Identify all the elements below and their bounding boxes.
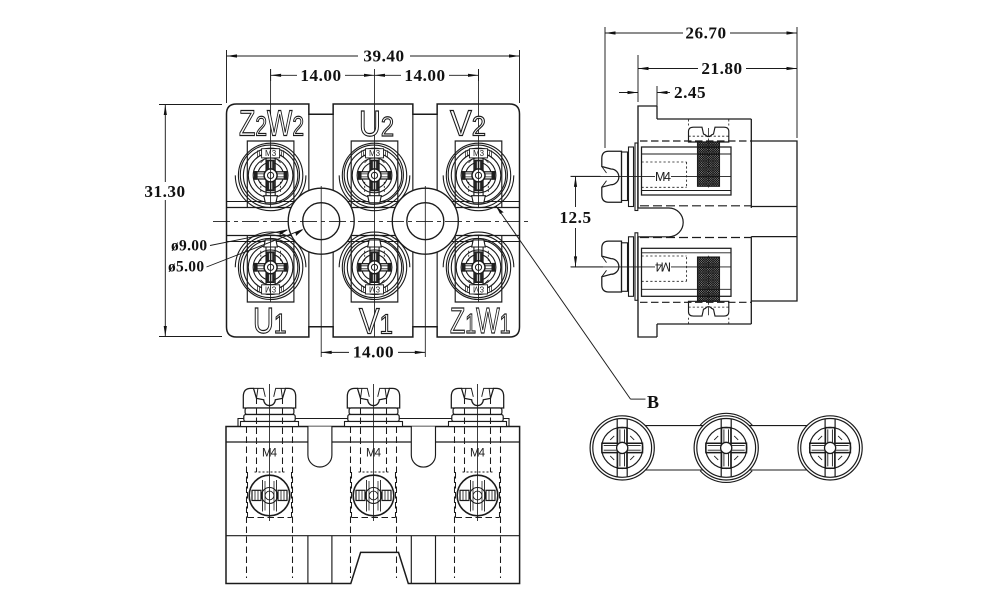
mounting hole right (outer 9mm) [392, 188, 458, 254]
dim 39.40 line [227, 55, 359, 57]
svg-text:14.00: 14.00 [353, 343, 394, 362]
front view body outline [227, 104, 520, 337]
channel horizontal edge lines [227, 202, 520, 242]
bottom view column 3 [449, 384, 507, 578]
svg-text:2.45: 2.45 [674, 83, 706, 102]
leader to detail B [496, 206, 645, 399]
screw axis centerline [571, 175, 655, 177]
bottom view body outline [226, 427, 520, 584]
screw Z2W2 [238, 143, 302, 207]
bottom view column 2 [345, 384, 403, 578]
flange plate outline [638, 106, 657, 337]
svg-text:ø5.00: ø5.00 [168, 259, 204, 276]
side view bottom screw assembly (mirror) [571, 233, 751, 324]
svg-text:39.40: 39.40 [363, 47, 404, 66]
leader diameter 9.00 [207, 230, 303, 267]
spring washer [622, 152, 628, 201]
right block [751, 141, 797, 301]
screw U1 [238, 235, 302, 299]
dim 2.45 [656, 86, 658, 114]
terminal frame V2 [455, 141, 502, 208]
horizontal dash-dot centerline [213, 221, 531, 223]
screw V2 boss arc [443, 175, 514, 210]
mounting hole right inner (5mm) [407, 203, 444, 240]
terminal frame V1 [351, 236, 398, 303]
screw U1 boss arc [235, 232, 306, 267]
dim 12.5 [571, 175, 601, 177]
dim 14.00 bottom line [321, 351, 349, 353]
detail B middle screw outer arcs [700, 413, 752, 482]
terminal frame U1 [247, 236, 294, 303]
terminal frame Z1W1 [455, 236, 502, 303]
main body outline [657, 118, 751, 120]
feet verticals [307, 536, 309, 584]
screw V1 boss arc [339, 232, 410, 267]
screw Z2W2 boss arc [235, 175, 306, 210]
channel vertical edges [309, 114, 437, 327]
slot between columns right [411, 427, 435, 468]
stud axis [708, 128, 710, 190]
column centerline Z2W2/U1 [270, 69, 272, 208]
flat washer [629, 147, 634, 207]
step line [226, 441, 520, 443]
terminal frame U2 [351, 141, 398, 208]
screw V2 [446, 143, 510, 207]
svg-text:21.80: 21.80 [701, 59, 742, 78]
dim 14.00 top lines [271, 74, 297, 76]
svg-text:M4: M4 [655, 170, 671, 184]
terminal bore [642, 147, 732, 195]
screw U2 [342, 143, 406, 207]
arrowheads front view [227, 54, 238, 57]
hidden verticals above clamp screw [689, 120, 729, 128]
side view screw assembly (top), mirrored for bottom [571, 120, 751, 211]
detail B middle screw [694, 416, 758, 480]
dim 31.30 extensions [159, 104, 222, 106]
mounting hole left inner (5mm) [303, 203, 340, 240]
mounting hole left (outer 9mm) [288, 188, 354, 254]
dim 14.00 top extensions [270, 69, 272, 81]
screw V1 [342, 235, 406, 299]
screw head profile [602, 151, 622, 202]
threaded stud (hatched) [698, 142, 720, 186]
svg-text:M4: M4 [655, 260, 671, 274]
top plate [238, 419, 509, 427]
M4 label bottom (rotated) [655, 260, 671, 274]
svg-text:31.30: 31.30 [144, 182, 185, 201]
bottom view column 1 [241, 384, 299, 578]
detail B left screw [590, 416, 654, 480]
svg-text:14.00: 14.00 [404, 66, 445, 85]
detail B right screw [798, 416, 862, 480]
dim 39.40 extension lines [226, 50, 228, 103]
dim 21.80 [637, 55, 639, 102]
slot between columns left [308, 427, 332, 468]
svg-text:14.00: 14.00 [300, 66, 341, 85]
vertical centerline through right hole [424, 186, 426, 357]
column centerline U2/V1 [374, 69, 376, 337]
hidden dashed line upper [640, 140, 751, 142]
dotted thread box [642, 162, 687, 187]
hidden dashed line near slot [640, 205, 751, 207]
svg-text:B: B [647, 392, 659, 412]
vertical centerline through left hole [320, 186, 322, 357]
terminal frame Z2W2 [247, 141, 294, 208]
link bar lines [645, 425, 808, 427]
svg-text:26.70: 26.70 [685, 24, 726, 43]
large washer [635, 143, 638, 211]
column centerline V2/Z1W1 [478, 69, 480, 208]
svg-text:ø9.00: ø9.00 [171, 238, 207, 255]
screw U2 boss arc [339, 175, 410, 210]
screw Z1W1 [446, 235, 510, 299]
U-slot between terminals [638, 208, 683, 237]
clamp screw head [689, 127, 729, 142]
svg-text:12.5: 12.5 [559, 208, 591, 227]
dim 31.30 line [164, 105, 166, 183]
screw Z1W1 boss arc [443, 232, 514, 267]
lower section line [226, 535, 520, 537]
dim 26.70 [604, 27, 606, 148]
